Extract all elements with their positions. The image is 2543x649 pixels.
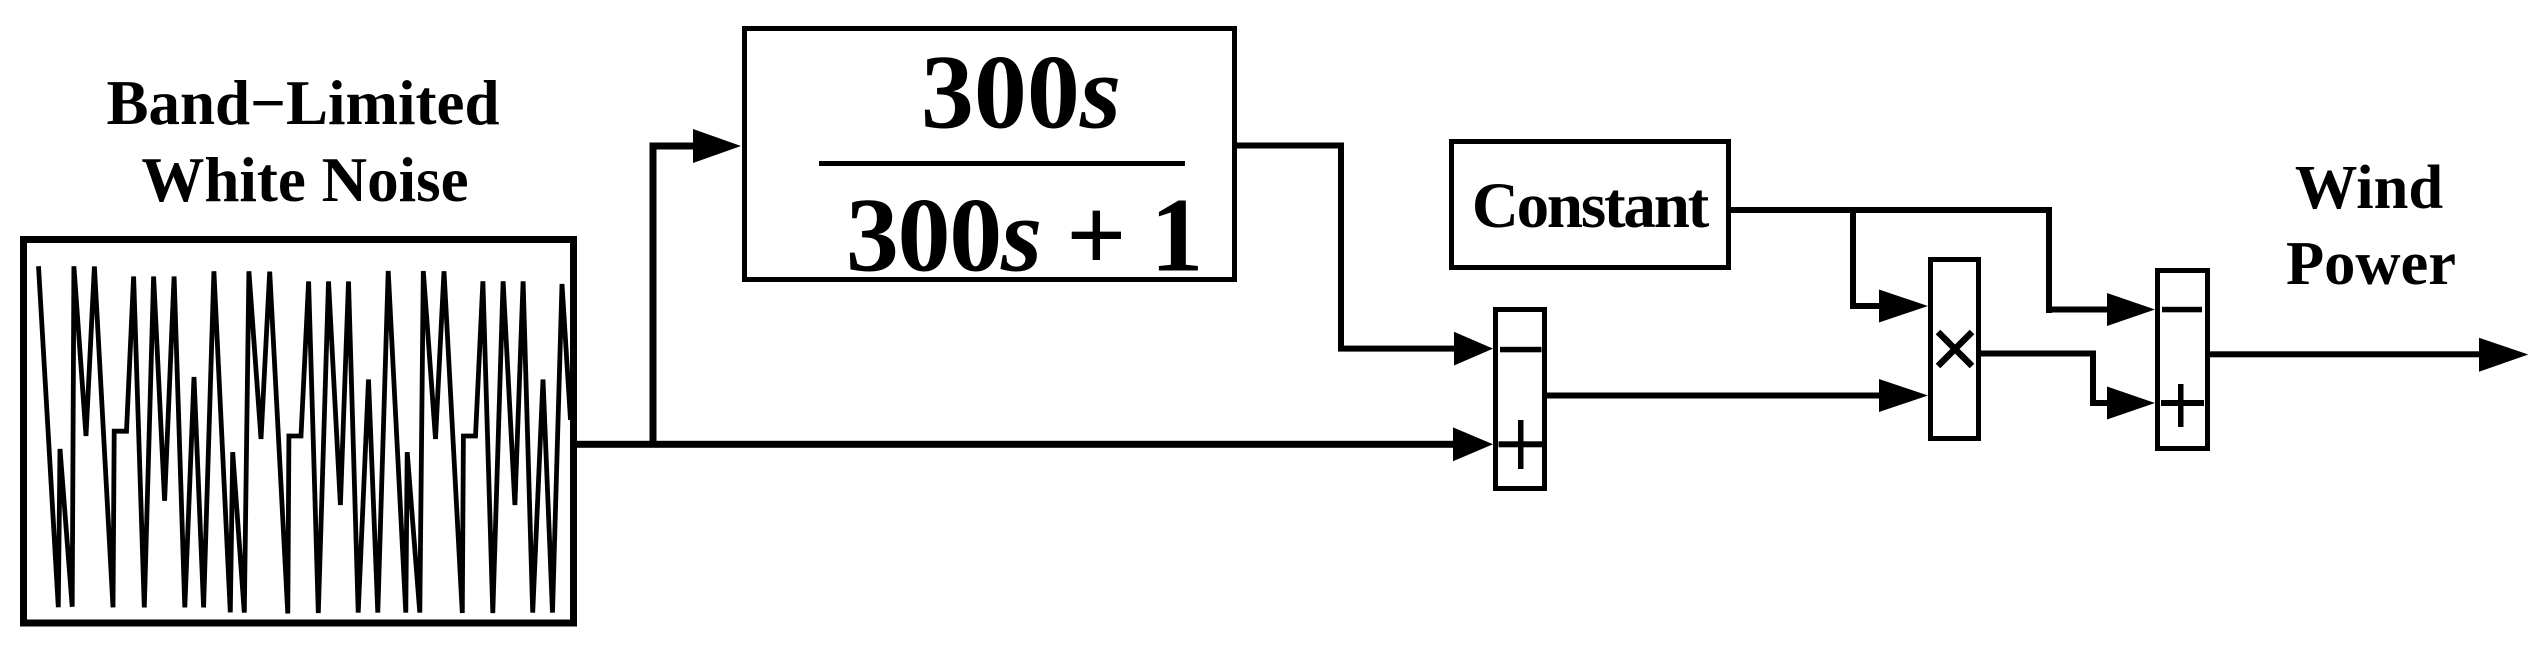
final output arrowhead: [2479, 338, 2528, 372]
Sum2 plus sign vertical: [2178, 384, 2184, 427]
svg-text:300s + 1: 300s + 1: [846, 177, 1202, 294]
Sum2 block: [2158, 271, 2208, 449]
Product block: [1931, 260, 1979, 439]
block Band-Limited White Noise (noise source box): [24, 240, 574, 624]
svg-text:Band−Limited: Band−Limited: [107, 68, 500, 138]
Constant block: [1452, 142, 1729, 268]
Sum1 minus sign: [1500, 347, 1542, 353]
Product multiply sign stroke 1: [1938, 332, 1972, 366]
wire horizontal into transfer function: [650, 143, 695, 150]
arrowhead into Sum2 minus input: [2107, 293, 2155, 326]
wire into Sum2 plus input: [2090, 400, 2108, 406]
arrowhead into transfer function: [693, 129, 741, 163]
wire Constant line down to Sum2 minus input: [2046, 207, 2052, 313]
Product multiply sign stroke 2: [1938, 332, 1972, 366]
wire down to Sum2 plus input: [2090, 351, 2096, 407]
svg-text:Wind: Wind: [2295, 152, 2443, 222]
wire into Sum1 minus input: [1338, 346, 1455, 352]
wire into Sum2 minus input: [2046, 307, 2108, 313]
Sum1 plus sign horizontal: [1499, 441, 1543, 447]
transfer function block: [745, 29, 1235, 280]
arrowhead into Sum1 plus input: [1453, 427, 1493, 461]
Sum2 plus sign horizontal: [2161, 400, 2204, 406]
wire down from TF output corner: [1338, 143, 1344, 352]
wire Constant output: [1731, 207, 2052, 213]
svg-text:White Noise: White Noise: [141, 145, 468, 215]
wire branch junction up to transfer function: [650, 143, 657, 448]
wire Product output: [1981, 351, 2096, 357]
wire transfer function output: [1237, 143, 1344, 149]
arrowhead into Product bottom input: [1879, 379, 1928, 412]
fraction bar: [819, 161, 1185, 166]
noise waveform polyline: [39, 266, 571, 613]
svg-text:Constant: Constant: [1472, 170, 1710, 242]
wire branch down to Product top input: [1850, 207, 1856, 309]
Sum1 plus sign vertical: [1518, 420, 1524, 469]
svg-text:Power: Power: [2286, 228, 2456, 298]
wire noise box output to Sum1 plus input: [574, 441, 1453, 448]
svg-text:300s: 300s: [921, 34, 1121, 151]
Sum2 minus sign: [2162, 307, 2202, 313]
arrowhead into Sum2 plus input: [2107, 387, 2155, 420]
wire Sum1 output to Product bottom input: [1547, 393, 1880, 399]
arrowhead into Product top input: [1879, 290, 1928, 323]
Sum1 block: [1496, 310, 1545, 489]
wire Sum2 output (Wind Power): [2210, 351, 2479, 357]
wire into Product top input: [1850, 303, 1880, 309]
arrowhead into Sum1 minus input: [1454, 332, 1493, 366]
